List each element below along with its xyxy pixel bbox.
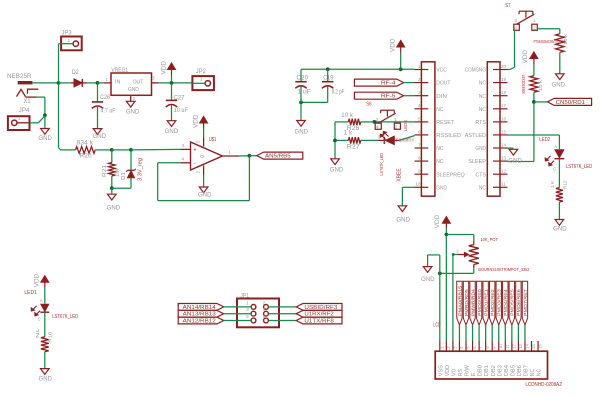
- XBEE pin 20 COMSNG: [493, 69, 508, 71]
- svg-text:PMA0/RB15: PMA0/RB15: [457, 285, 462, 316]
- wire bottom node to ground: [111, 188, 113, 194]
- XBEE pin 19 NC: [493, 82, 508, 84]
- junction VDD pot node: [444, 233, 448, 237]
- svg-text:JP2: JP2: [196, 69, 207, 75]
- svg-text:PTS645SM43SMTR2 LFS: PTS645SM43SMTR2 LFS: [534, 39, 566, 44]
- svg-text:LCD: LCD: [433, 322, 441, 328]
- capacitor C26: [92, 101, 103, 103]
- svg-text:D2: D2: [72, 70, 80, 76]
- svg-text:R12: R12: [563, 180, 569, 189]
- ground symbol under S7 resistor: [556, 74, 565, 80]
- wire tag PMD2/RE2 to LCD pin 9: [491, 325, 493, 341]
- power jack X1 center pin bar: [18, 81, 33, 84]
- net tag U1RX/RF2: [296, 310, 342, 317]
- svg-text:NC: NC: [436, 159, 443, 165]
- svg-text:NC: NC: [479, 107, 486, 113]
- svg-text:1: 1: [200, 77, 203, 83]
- svg-text:R27: R27: [347, 144, 361, 150]
- svg-text:16: 16: [538, 343, 543, 348]
- wire output junction to tag: [249, 155, 256, 157]
- XBEE pin 7 NC: [415, 147, 429, 149]
- svg-text:10K_POT: 10K_POT: [480, 237, 498, 243]
- ground symbol under XBEE pin10: [398, 206, 407, 212]
- wire R26 R27 to ground: [334, 122, 336, 159]
- JP1 pad pin 6: [264, 318, 269, 323]
- svg-text:BOURNS10KTRIMPOT_3352: BOURNS10KTRIMPOT_3352: [478, 267, 529, 272]
- wire node to VREG1 pin1: [98, 82, 105, 84]
- power jack X1 switch pin: [28, 89, 39, 94]
- svg-text:3.3V_reg: 3.3V_reg: [137, 158, 143, 181]
- wire R20 to R21 node: [95, 149, 112, 151]
- LCD pin 6 E: [472, 341, 474, 351]
- wire LCD VSS pin1 up and to ground: [439, 255, 441, 341]
- svg-text:13: 13: [501, 156, 507, 161]
- XBEE pin 3 DIN: [415, 95, 429, 97]
- wire tag PMD7/RE7 to LCD pin 14: [524, 325, 526, 341]
- svg-text:1 K: 1 K: [550, 180, 556, 188]
- VREG1 pin 3 OUT: [152, 82, 159, 84]
- trimpot wiper arrow: [458, 254, 465, 256]
- capacitor C27: [166, 99, 177, 101]
- LCD pin 10 DB3: [498, 341, 500, 351]
- wire node to op-amp pin 3: [131, 148, 181, 151]
- svg-text:PMD6/RE6: PMD6/RE6: [516, 288, 521, 316]
- svg-text:DB6: DB6: [517, 365, 523, 376]
- switch S7 body: [514, 24, 520, 30]
- resistor R21 1M: [111, 150, 113, 163]
- net tag USBID/RF3: [296, 304, 342, 311]
- junction op-amp output: [248, 154, 252, 158]
- net tag PMD2/RE2: [490, 281, 495, 325]
- svg-text:C26: C26: [100, 95, 111, 101]
- net tag PMD3/RE3: [496, 281, 501, 325]
- svg-text:GND: GND: [165, 129, 179, 135]
- diode D2: [71, 82, 74, 84]
- wire S6 row RESET: [374, 121, 414, 123]
- XBEE module right body: [487, 62, 500, 196]
- svg-text:OUT: OUT: [133, 80, 144, 86]
- svg-text:GND: GND: [93, 134, 107, 140]
- svg-text:VDD: VDD: [445, 365, 451, 376]
- svg-text:6: 6: [418, 129, 421, 134]
- svg-text:GND: GND: [396, 217, 410, 223]
- svg-text:XBEESOCKET: XBEESOCKET: [521, 74, 526, 93]
- svg-text:VDD: VDD: [35, 273, 41, 287]
- wire C26 to ground: [97, 107, 99, 129]
- svg-text:GND: GND: [107, 206, 121, 212]
- svg-text:GND: GND: [126, 109, 140, 115]
- svg-text:PMWR/RD4: PMWR/RD4: [470, 289, 475, 316]
- wire R27 to LED3 cathode: [361, 139, 379, 141]
- svg-text:14: 14: [501, 142, 507, 147]
- wire XBEE GND pin10 to ground: [402, 186, 414, 188]
- svg-text:V0: V0: [452, 369, 458, 376]
- wire wiper to LCD V0 pin3: [453, 254, 458, 256]
- svg-text:10: 10: [498, 343, 503, 348]
- svg-text:CN50/RD1: CN50/RD1: [556, 100, 585, 106]
- svg-text:GND: GND: [295, 130, 309, 136]
- net tag PMD6/RE6: [516, 281, 521, 325]
- svg-text:VDD: VDD: [193, 114, 199, 128]
- wire resistor to ground: [559, 52, 561, 73]
- svg-text:LED1: LED1: [24, 290, 37, 296]
- supply VDD above op-amp: [203, 123, 205, 129]
- svg-text:GND: GND: [553, 227, 567, 233]
- svg-text:IN: IN: [115, 80, 121, 86]
- svg-text:GND: GND: [436, 185, 447, 191]
- svg-text:20: 20: [501, 64, 507, 69]
- JP1 pad pin 1: [251, 305, 256, 310]
- XBEE pin 2 DOUT: [415, 82, 429, 84]
- LCD pin 8 DB1: [485, 341, 487, 351]
- XBEE pin 1 VCC: [415, 69, 429, 71]
- trimpot BOURNS resistor: [473, 241, 475, 245]
- svg-text:16: 16: [501, 116, 507, 121]
- svg-text:DB0: DB0: [478, 365, 484, 376]
- svg-text:R/W: R/W: [465, 364, 471, 376]
- LCD pin 11 DB4: [504, 341, 506, 351]
- svg-text:AN5/RB5: AN5/RB5: [265, 154, 291, 160]
- svg-text:NC: NC: [530, 369, 536, 376]
- svg-text:RF-5: RF-5: [381, 94, 396, 100]
- svg-text:DB1: DB1: [484, 365, 490, 376]
- svg-text:VDD: VDD: [523, 49, 529, 63]
- svg-text:XBEE: XBEE: [397, 168, 403, 182]
- net tag AN13/RB13: [178, 310, 224, 317]
- wire tag PMD1/RE1 to LCD pin 8: [485, 325, 487, 341]
- wire node to tag: [534, 101, 548, 103]
- svg-text:14: 14: [524, 343, 529, 348]
- svg-text:GND: GND: [128, 87, 139, 93]
- svg-text:3: 3: [152, 76, 155, 81]
- op-amp pin 4 inverting input: [181, 162, 191, 164]
- svg-text:GND: GND: [552, 83, 566, 89]
- XBEE pin 10 GND: [415, 186, 429, 188]
- svg-text:VDD: VDD: [391, 38, 397, 52]
- LCD pin 4 RS: [458, 341, 460, 351]
- power jack X1 sleeve chevron: [17, 89, 26, 96]
- svg-text:PMD2/RE2: PMD2/RE2: [490, 288, 495, 316]
- wire op-amp supply to VDD: [203, 129, 205, 138]
- XBEE pin 18 NC: [493, 95, 508, 97]
- svg-text:C: C: [38, 317, 41, 322]
- JP2 pin wire: [192, 82, 205, 84]
- net tag AN5/RB5: [257, 152, 303, 159]
- ground symbol under R16: [41, 369, 50, 375]
- svg-text:S7: S7: [505, 3, 510, 9]
- junction VREG IN node: [96, 81, 100, 85]
- svg-text:NC: NC: [436, 107, 443, 113]
- wire tag PMD5/RE5 to LCD pin 12: [511, 325, 513, 341]
- wire VDD to LED1 anode: [44, 289, 46, 303]
- supply VDD above LCD: [445, 229, 447, 235]
- wire output to junction: [239, 155, 249, 157]
- svg-text:4: 4: [418, 103, 421, 108]
- XBEE pin 5 RESET: [415, 121, 429, 123]
- svg-text:RESET: RESET: [436, 120, 454, 126]
- ground symbol under R12: [555, 220, 564, 226]
- LCD pin 2 VDD: [445, 341, 447, 351]
- svg-text:1: 1: [418, 64, 421, 69]
- svg-text:2: 2: [133, 96, 136, 101]
- supply VDD above LED1: [44, 288, 46, 290]
- connector JP4: [8, 116, 30, 130]
- net tag CN50/RD1: [547, 98, 591, 105]
- header JP1 body: [237, 299, 279, 328]
- ground symbol under R26 R27: [331, 159, 340, 165]
- svg-text:C27: C27: [174, 96, 186, 102]
- XBEE pin 4 NC: [415, 108, 429, 110]
- wire node down to C27: [171, 83, 173, 100]
- svg-text:NEB25R: NEB25R: [7, 73, 32, 80]
- junction R21 bottom: [110, 186, 114, 190]
- wire VDD node to trimpot top: [446, 234, 473, 236]
- svg-text:PMRD/RD5: PMRD/RD5: [464, 288, 469, 316]
- wire R12 to ground: [558, 202, 560, 220]
- wire ground node down: [44, 115, 46, 128]
- JP1 pad pin 3: [251, 311, 256, 316]
- svg-text:1: 1: [533, 18, 536, 23]
- XBEE pin 15 ASTLED: [493, 134, 508, 136]
- voltage regulator VREG1 body: [111, 73, 152, 95]
- svg-text:NL: NL: [35, 328, 41, 338]
- wire X1 sleeve to ground node: [26, 96, 37, 98]
- ground symbol under C20: [297, 121, 306, 127]
- svg-text:DB7: DB7: [524, 365, 530, 376]
- LCD pin 5 R/W: [465, 341, 467, 351]
- net tag U1TX/RF8: [296, 317, 342, 324]
- svg-text:VCC: VCC: [436, 68, 447, 74]
- svg-text:R21: R21: [102, 165, 108, 177]
- svg-text:LCDNHD-0208AZ: LCDNHD-0208AZ: [525, 382, 562, 388]
- svg-text:8.2 pF: 8.2 pF: [332, 90, 345, 96]
- svg-text:GND: GND: [421, 277, 435, 283]
- XBEE module left body: [421, 62, 435, 196]
- svg-text:NC: NC: [479, 185, 486, 191]
- svg-text:PMD4/RE4: PMD4/RE4: [503, 288, 508, 316]
- wire RF-4 to XBEE DOUT: [404, 82, 415, 84]
- svg-text:3: 3: [514, 18, 517, 23]
- resistor 10k at S7: [556, 34, 564, 53]
- supply VDD above XBEE: [400, 53, 402, 70]
- svg-text:3: 3: [376, 117, 379, 122]
- svg-text:RSSILED: RSSILED: [436, 133, 461, 139]
- junction S6 left contact: [373, 120, 377, 124]
- wire X1 to node VIN: [32, 82, 58, 84]
- wire JP1 right pad to tag: [268, 306, 296, 308]
- svg-text:2: 2: [418, 77, 421, 82]
- svg-text:RTS: RTS: [475, 120, 486, 126]
- svg-text:R20: R20: [80, 154, 93, 160]
- wire R16 to ground: [44, 352, 46, 369]
- LCD pin 12 DB5: [511, 341, 513, 351]
- svg-text:GND: GND: [198, 192, 212, 198]
- svg-text:NC: NC: [436, 146, 443, 152]
- LCD pin 16 NC: [537, 341, 539, 351]
- svg-text:NC: NC: [479, 94, 486, 100]
- junction C19 top: [326, 67, 330, 71]
- wire tag PMWR/RD4 to LCD pin 6: [472, 325, 474, 341]
- net tag PMD1/RE1: [483, 281, 488, 325]
- svg-text:X1: X1: [24, 99, 32, 105]
- wire cap node to ground: [300, 102, 302, 120]
- switch S6 body: [375, 123, 381, 129]
- op-amp pin 3 non-inverting input: [181, 148, 191, 150]
- svg-text:11: 11: [505, 344, 510, 349]
- wire RF-5 to XBEE DIN: [404, 95, 415, 97]
- wire S7 pin4 to XBEE pin20: [514, 30, 516, 67]
- wire tag to JP1 left pad: [224, 313, 251, 315]
- svg-text:10 k: 10 k: [538, 79, 544, 91]
- svg-text:1: 1: [228, 149, 231, 155]
- junction X1/JP4 ground node: [43, 113, 47, 117]
- svg-text:5: 5: [418, 116, 421, 121]
- op-amp pin 5 positive supply: [203, 137, 205, 146]
- svg-text:5: 5: [196, 140, 201, 143]
- LCD pin 1 VSS: [439, 341, 441, 351]
- svg-text:RS: RS: [458, 369, 464, 377]
- svg-text:DB3: DB3: [497, 365, 503, 376]
- junction VDD arrow node: [399, 67, 403, 71]
- ground symbol under R21: [108, 194, 117, 200]
- svg-text:LST67K_LED: LST67K_LED: [52, 314, 78, 320]
- svg-text:VSS: VSS: [438, 365, 444, 376]
- connector JP2: [192, 76, 214, 90]
- VREG1 pin 2 GND stub: [130, 95, 132, 101]
- wire pullup to SLEEP node: [533, 92, 535, 161]
- connector JP3: [61, 37, 82, 51]
- wire VIN to D2: [59, 82, 71, 84]
- JP1 pad pin 5: [251, 318, 256, 323]
- svg-text:PMD5/RE5: PMD5/RE5: [510, 288, 515, 316]
- svg-text:15: 15: [501, 129, 507, 134]
- net tag RF-5: [354, 92, 403, 99]
- wire VIN node down to R20: [58, 83, 60, 148]
- LCD pin 14 DB7: [524, 341, 526, 351]
- svg-text:C19: C19: [323, 75, 334, 81]
- svg-text:10: 10: [415, 182, 421, 187]
- svg-text:1 uF: 1 uF: [297, 90, 311, 96]
- svg-text:2: 2: [456, 248, 459, 253]
- wire LED2 cathode to R12: [558, 159, 560, 188]
- XBEE pin 14 GND: [493, 147, 508, 149]
- svg-text:C: C: [553, 166, 556, 171]
- svg-text:C20: C20: [296, 75, 309, 81]
- svg-text:12: 12: [501, 169, 507, 174]
- pull-up resistor 10 k: [530, 76, 538, 93]
- svg-text:E: E: [471, 372, 477, 376]
- svg-text:U$1: U$1: [209, 137, 217, 143]
- wire S7 pin2 to pull resistor: [537, 28, 560, 30]
- ground symbol at XBEE pin14: [509, 149, 518, 155]
- wire JP1 right pad to tag: [268, 320, 296, 322]
- wire JP1 right pad to tag: [268, 313, 296, 315]
- svg-text:4: 4: [514, 26, 517, 31]
- JP1 pad pin 4: [264, 311, 269, 316]
- svg-text:-: -: [194, 161, 196, 167]
- svg-text:4: 4: [376, 125, 379, 130]
- LED1: [41, 304, 49, 312]
- svg-text:1 k: 1 k: [344, 131, 354, 137]
- wire D2 to VREG IN node: [87, 82, 98, 84]
- svg-text:RF-4: RF-4: [381, 81, 396, 87]
- svg-text:17: 17: [501, 103, 507, 108]
- svg-text:3: 3: [418, 90, 421, 95]
- svg-text:CTS: CTS: [475, 172, 486, 178]
- XBEE pin 9 SLEEPREQ: [415, 173, 429, 175]
- svg-text:GND: GND: [38, 136, 52, 142]
- wire tag PMD6/RE6 to LCD pin 13: [517, 325, 519, 341]
- junction trimpot VSS node: [438, 272, 442, 276]
- wire VDD node down to LCD pin2: [445, 235, 447, 342]
- svg-text:COMSNG: COMSNG: [465, 68, 486, 74]
- svg-text:A: A: [554, 144, 557, 149]
- svg-text:7: 7: [418, 142, 421, 147]
- wire XBEE GND pin14 to ground: [508, 147, 514, 149]
- op-amp output pin 1: [222, 155, 239, 157]
- svg-text:10 uF: 10 uF: [174, 108, 188, 114]
- wire op-amp pin2 to ground: [203, 175, 205, 188]
- svg-text:LST67K_LED: LST67K_LED: [566, 164, 593, 170]
- svg-text:13: 13: [518, 343, 523, 348]
- capacitor C20 1 uF: [300, 69, 302, 81]
- net tag PMD5/RE5: [509, 281, 514, 325]
- wire tag PMD4/RE4 to LCD pin 11: [504, 325, 506, 341]
- svg-text:2: 2: [395, 125, 398, 130]
- svg-text:PMD3/RE3: PMD3/RE3: [497, 288, 502, 316]
- wire tag PMD3/RE3 to LCD pin 10: [498, 325, 500, 341]
- zener diode D1 3.3V_reg: [130, 150, 132, 170]
- LCD pin 7 DB0: [478, 341, 480, 351]
- resistor R12 1 k: [556, 188, 563, 202]
- junction VDD node at C27: [170, 81, 174, 85]
- net tag AN12/RB12: [178, 317, 224, 324]
- supply VDD above C27: [171, 75, 173, 83]
- net tag PMRD/RD5: [463, 281, 468, 325]
- svg-text:3: 3: [182, 143, 185, 149]
- wire tag PMA0/RB15 to LCD pin 4: [458, 325, 460, 341]
- XBEE pin 13 SLEEP: [493, 160, 508, 162]
- wire C19 bottom to C20 bottom: [327, 87, 329, 103]
- net tag PMA0/RB15: [457, 281, 462, 325]
- wire VREG OUT to VDD node: [159, 82, 193, 84]
- svg-text:VDD: VDD: [435, 214, 441, 228]
- svg-text:NC: NC: [537, 369, 543, 376]
- LCD pin 3 V0: [452, 341, 454, 351]
- LCD connector body: [435, 351, 547, 379]
- wire JP4 pin to ground node: [17, 122, 30, 124]
- VREG1 pin 1 IN: [104, 82, 111, 84]
- wire LED1 cathode to R16: [44, 312, 46, 337]
- svg-text:1: 1: [18, 116, 21, 122]
- JP1 pad pin 2: [264, 305, 269, 310]
- svg-text:GND: GND: [508, 159, 522, 165]
- svg-text:GND: GND: [39, 377, 53, 383]
- LCD pin 15 NC: [531, 341, 533, 351]
- svg-text:DB4: DB4: [504, 365, 510, 376]
- supply VDD above pullup: [533, 64, 535, 76]
- XBEE pin 6 RSSILED: [415, 134, 429, 136]
- ground symbol under C26: [93, 129, 102, 135]
- resistor R16 value NL: [41, 337, 49, 352]
- svg-text:LST67K_LED: LST67K_LED: [379, 153, 385, 176]
- net tag PMD0/RE0: [476, 281, 481, 325]
- svg-text:PMD1/RE1: PMD1/RE1: [483, 288, 488, 316]
- op-amp pin 2 negative supply: [203, 165, 205, 174]
- net tag RF-4: [354, 79, 403, 86]
- LCD pin 13 DB6: [517, 341, 519, 351]
- svg-text:1: 1: [394, 117, 397, 122]
